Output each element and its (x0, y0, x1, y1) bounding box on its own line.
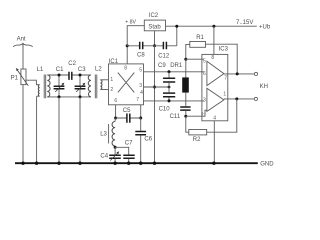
tank top wire (47, 74, 91, 76)
capacitor C11 (170, 107, 191, 120)
resistor R2 (186, 99, 237, 143)
svg-text:5: 5 (139, 68, 142, 74)
node R1/DR1/pin5 (184, 58, 187, 61)
transformer L2 (88, 67, 102, 99)
svg-text:R1: R1 (196, 35, 204, 41)
wire P1 to ground (22, 85, 24, 164)
wire output2 (224, 98, 254, 100)
svg-text:C8: C8 (137, 52, 145, 58)
node C10 bottom (168, 99, 171, 102)
svg-text:C4: C4 (100, 153, 108, 159)
svg-text:KH: KH (260, 84, 268, 90)
terminal out1 (254, 72, 257, 75)
wire pin2 (186, 110, 207, 116)
wire L2 to IC1 pin2 (100, 89, 108, 91)
wire C1 to ground (58, 97, 60, 163)
node pin8/+8V (126, 44, 129, 47)
+8V feed wire (127, 26, 144, 46)
ground node C3 (78, 162, 81, 165)
long ground vertical from stab node (154, 46, 156, 163)
svg-text:C7: C7 (125, 140, 133, 146)
svg-text:Stab: Stab (148, 24, 161, 30)
wire L2 to IC1 pin1 (100, 79, 108, 81)
svg-text:2: 2 (110, 87, 113, 93)
svg-text:R2: R2 (193, 137, 201, 143)
trimmer capacitor C4 (100, 147, 120, 163)
wire IC1 pin4 to IC3 pin3 (144, 100, 205, 102)
wire IC1 pin3 (144, 86, 170, 88)
svg-text:C6: C6 (144, 136, 152, 142)
terminal out2 (254, 97, 257, 100)
ground node P1 (21, 162, 24, 165)
choke DR1 (170, 59, 189, 106)
svg-text:C11: C11 (170, 114, 181, 120)
ground node C1 (57, 162, 60, 165)
wire IC3 pin4 to ground (213, 121, 215, 163)
svg-text:C3: C3 (78, 67, 86, 73)
ground node C6 (139, 162, 142, 165)
node rail/C12 (175, 25, 178, 28)
svg-text:7: 7 (136, 97, 139, 103)
supply rail +Ub (166, 25, 257, 27)
wire IC1 pin6 down (115, 105, 117, 118)
svg-text:C2: C2 (68, 61, 76, 67)
ground node L1 (35, 162, 38, 165)
node C9/C10 mid (168, 86, 171, 89)
svg-text:2: 2 (201, 113, 204, 119)
capacitor C10 (159, 87, 176, 113)
wire L1 primary to ground (36, 96, 38, 163)
capacitor C7 (115, 140, 135, 163)
svg-text:L3: L3 (100, 132, 107, 138)
node C1 top (58, 74, 61, 77)
svg-text:3: 3 (203, 97, 206, 103)
svg-text:1: 1 (110, 77, 113, 83)
ground node C4 (113, 162, 116, 165)
capacitor C9 (158, 63, 175, 87)
inductor L3 (100, 118, 115, 147)
node L3 bottom (114, 146, 117, 149)
svg-text:C5: C5 (123, 108, 131, 114)
svg-text:6: 6 (114, 98, 117, 104)
node pin7/C5 (139, 117, 142, 120)
wire IC1 pin7 down (140, 105, 142, 118)
node C3 bottom (79, 95, 82, 98)
node pin3 junction (153, 86, 156, 89)
transformer L1 (37, 67, 50, 98)
wire node to IC3 pin5 (186, 58, 204, 60)
wire antenna to P1 (22, 44, 24, 70)
wire C12 to +Ub rail (176, 26, 178, 46)
svg-text:8: 8 (211, 55, 214, 61)
svg-text:+Ub: +Ub (259, 24, 271, 30)
capacitor C5 (116, 108, 141, 123)
svg-text:Ant: Ant (17, 37, 26, 43)
capacitor C12 (155, 42, 177, 60)
svg-text:3: 3 (139, 83, 142, 89)
svg-text:C12: C12 (158, 54, 170, 60)
trimmer capacitor C3 (75, 67, 87, 97)
wire IC1 pin8 up (126, 46, 128, 64)
svg-text:7..15V: 7..15V (236, 20, 253, 26)
wire C3 to ground (79, 97, 81, 163)
wire IC1 pin5 to IC3 pin6 (144, 71, 204, 73)
wire rail to IC3 pin8 (213, 26, 215, 54)
svg-text:C9: C9 (158, 63, 166, 69)
svg-text:DR1: DR1 (170, 63, 183, 69)
svg-text:6: 6 (203, 71, 206, 77)
capacitor C2 (68, 61, 76, 80)
svg-text:4: 4 (140, 90, 143, 96)
svg-text:+ 8V: + 8V (125, 19, 136, 25)
wire IC2 to C8/C12 node (154, 31, 156, 46)
svg-text:IC2: IC2 (149, 13, 159, 19)
ground rail (15, 162, 258, 164)
node pin6/C5 (114, 117, 117, 120)
node C3 top (79, 74, 82, 77)
resistor R1 (186, 35, 237, 74)
node out1 (236, 72, 239, 75)
wire P1 wiper to L1 (25, 80, 39, 85)
svg-text:7: 7 (224, 75, 227, 81)
svg-text:P1: P1 (11, 76, 19, 82)
node stab out (153, 44, 156, 47)
ground node IC3 pin4 (212, 162, 215, 165)
mixer IC1 (109, 59, 144, 105)
node C9 top (168, 70, 171, 73)
svg-text:C1: C1 (56, 67, 64, 73)
potentiometer P1 (11, 68, 29, 86)
svg-text:5: 5 (203, 58, 206, 64)
trimmer capacitor C1 (54, 67, 65, 97)
voltage regulator IC2 (144, 13, 165, 31)
svg-text:1: 1 (223, 91, 226, 97)
svg-text:C10: C10 (159, 107, 171, 113)
ground node long vertical (153, 162, 156, 165)
svg-text:L2: L2 (95, 67, 102, 73)
svg-text:8: 8 (124, 65, 127, 71)
svg-text:IC3: IC3 (219, 46, 229, 52)
ground node C7 (127, 162, 130, 165)
antenna Ant (13, 37, 32, 47)
node out2 (235, 97, 238, 100)
node C11/pin2 (184, 115, 187, 118)
capacitor C6 (135, 118, 152, 163)
wire output1 (224, 73, 255, 75)
svg-text:4: 4 (213, 115, 216, 121)
op-amp IC3 (201, 46, 229, 121)
svg-text:GND: GND (260, 162, 274, 168)
capacitor C8 (127, 42, 154, 59)
node rail/IC3 pin8 (212, 25, 215, 28)
node C1 bottom (58, 95, 61, 98)
tank bottom wire (47, 96, 91, 98)
svg-text:L1: L1 (37, 67, 44, 73)
